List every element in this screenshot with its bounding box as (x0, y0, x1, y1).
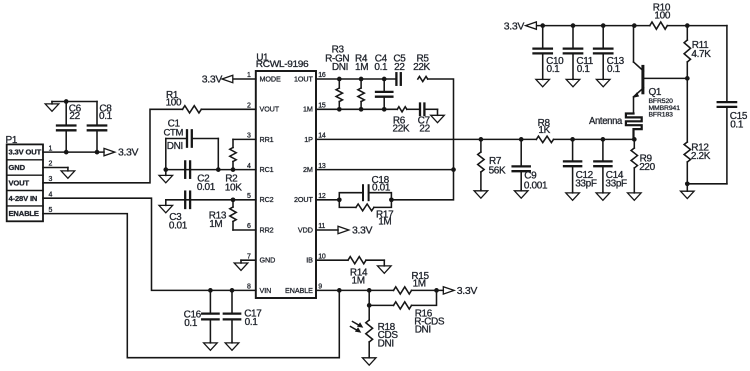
wire U1 2M (316, 169, 454, 171)
svg-text:1M: 1M (209, 219, 222, 230)
wire U1 IB (316, 259, 348, 261)
svg-text:4: 4 (49, 191, 53, 198)
ground at C12 (566, 193, 580, 201)
svg-text:100: 100 (654, 10, 670, 21)
svg-text:VIN: VIN (260, 286, 272, 295)
wire U1 1P main line (316, 138, 536, 140)
svg-text:100: 100 (166, 97, 182, 108)
svg-text:2: 2 (247, 103, 251, 110)
svg-text:56K: 56K (489, 166, 506, 177)
wire U1 GND (241, 259, 256, 261)
svg-text:8: 8 (247, 284, 251, 291)
svg-text:RC2: RC2 (260, 195, 274, 204)
wire U1 1OUT (316, 78, 396, 80)
svg-text:10: 10 (318, 253, 326, 260)
svg-text:1: 1 (49, 145, 53, 152)
capacitor C4 (374, 54, 392, 110)
node 1M-R4 (359, 107, 364, 112)
node R12-C15 (685, 181, 690, 186)
capacitor C14 (594, 139, 627, 192)
ground at P1 pin2 (61, 168, 75, 179)
node feedback-2M (451, 167, 456, 172)
svg-text:1M: 1M (352, 276, 365, 287)
node ENABLE bus (337, 288, 342, 293)
node VIN-C16 (208, 288, 213, 293)
svg-text:2M: 2M (303, 165, 313, 174)
power arrow 3.3V at ENABLE (443, 285, 477, 297)
svg-text:ENABLE: ENABLE (9, 209, 39, 218)
ground at C17 (225, 343, 239, 351)
wire U1 RR2 (233, 229, 256, 231)
svg-text:2: 2 (49, 161, 53, 168)
svg-text:12: 12 (318, 193, 326, 200)
wire U1 RC2 (190, 199, 256, 201)
resistor R2 (225, 139, 242, 193)
node ENABLE-R16/R18 (367, 288, 372, 293)
capacitor C16 (184, 290, 219, 342)
svg-text:3.3V: 3.3V (352, 225, 373, 237)
svg-text:22K: 22K (393, 123, 410, 134)
ground at C14 (596, 193, 610, 201)
svg-text:DNI: DNI (415, 325, 431, 336)
ground at C2 (159, 170, 173, 183)
node VIN-C17 (230, 288, 235, 293)
ground at C16 (204, 343, 218, 351)
node junction C8 (95, 150, 100, 155)
svg-text:0.01: 0.01 (197, 182, 216, 193)
svg-text:3.3V OUT: 3.3V OUT (9, 148, 42, 157)
svg-text:Q1: Q1 (649, 87, 662, 98)
svg-text:3: 3 (49, 176, 53, 183)
svg-text:0.1: 0.1 (99, 111, 113, 122)
node 1P-C12 (570, 137, 575, 142)
photoresistor R18 CDS DNI (351, 305, 399, 357)
ground at C6 rail (45, 102, 59, 112)
resistor R3 R-GN DNI (325, 45, 349, 110)
wire R5 to 2M feedback (391, 79, 453, 200)
node C1 right (216, 167, 221, 172)
node R13 top (231, 197, 236, 202)
wire U1 RR1 to R2 (233, 138, 256, 140)
svg-text:22: 22 (394, 62, 405, 73)
svg-text:220: 220 (639, 162, 655, 173)
resistor R12 (684, 78, 711, 183)
resistor R1 (166, 90, 202, 113)
resistor R17 (339, 200, 394, 228)
svg-text:RR1: RR1 (260, 135, 274, 144)
power arrow 3.3V at VDD (338, 225, 373, 237)
wire U1 RC1 (190, 169, 256, 171)
capacitor C13 (594, 26, 625, 87)
svg-text:1: 1 (247, 72, 251, 79)
wire R10 to C15 (667, 25, 727, 27)
node 1P-C14 (601, 137, 606, 142)
resistor R11 (684, 26, 711, 79)
svg-text:0.01: 0.01 (169, 221, 188, 232)
capacitor C3 (166, 192, 190, 232)
capacitor C12 (564, 139, 597, 192)
node rail-Q1 collector (632, 23, 637, 28)
capacitor C11 (564, 26, 594, 87)
svg-text:10K: 10K (225, 182, 242, 193)
svg-text:3.3V: 3.3V (504, 20, 525, 32)
svg-text:0.01: 0.01 (372, 183, 391, 194)
ground at R12 (681, 184, 695, 199)
node 1OUT-R4 (359, 77, 364, 82)
svg-text:MODE: MODE (260, 74, 281, 83)
node 1P-R7 (479, 137, 484, 142)
svg-text:5: 5 (49, 207, 53, 214)
node 1M-R3 (337, 107, 342, 112)
power arrow 3.3V rail (504, 20, 537, 32)
svg-text:GND: GND (260, 256, 276, 265)
resistor R15 (394, 271, 430, 294)
wire R8 to antenna (554, 138, 635, 140)
svg-text:4.7K: 4.7K (691, 49, 711, 60)
wire U1 2OUT (316, 199, 339, 201)
svg-text:RR2: RR2 (260, 225, 274, 234)
node rail-C11 (571, 23, 576, 28)
node 1M-C4 (382, 107, 387, 112)
ground at C3 (159, 200, 173, 213)
svg-text:0.1: 0.1 (547, 64, 561, 75)
svg-text:RC1: RC1 (260, 165, 274, 174)
svg-text:BFR183: BFR183 (649, 112, 674, 119)
svg-text:4-28V IN: 4-28V IN (9, 194, 38, 203)
svg-text:33pF: 33pF (575, 178, 597, 189)
svg-text:7: 7 (247, 253, 251, 260)
svg-text:1M: 1M (378, 217, 391, 228)
node R10-R11 (685, 23, 690, 28)
svg-text:14: 14 (318, 133, 326, 140)
svg-text:0.1: 0.1 (730, 119, 744, 130)
capacitor C9 (513, 139, 548, 191)
wire U1 MODE (234, 78, 256, 80)
svg-text:2OUT: 2OUT (294, 195, 313, 204)
svg-text:1M: 1M (355, 62, 368, 73)
svg-text:P1: P1 (6, 135, 18, 146)
svg-text:DNI: DNI (167, 141, 183, 152)
power arrow 3.3V at MODE (202, 73, 233, 85)
svg-text:Antenna: Antenna (589, 116, 623, 127)
node 1P-C9 (519, 137, 524, 142)
node rail-C10 (540, 23, 545, 28)
wire P1 pin5 ENABLE bus (43, 214, 339, 358)
capacitor C2 (166, 161, 216, 193)
power arrow 3.3V at P1 pin1 (104, 147, 139, 159)
svg-text:3: 3 (247, 133, 251, 140)
svg-text:13: 13 (318, 163, 326, 170)
ground at C9 (514, 190, 528, 198)
svg-text:33pF: 33pF (605, 178, 627, 189)
wire U1 ENABLE (316, 289, 394, 291)
svg-text:0.1: 0.1 (374, 62, 388, 73)
node R16 rejoin (434, 288, 439, 293)
wire R14 to ground (366, 259, 384, 261)
svg-text:1M: 1M (303, 105, 313, 114)
svg-text:1P: 1P (304, 135, 313, 144)
U1 pin numbers (247, 72, 326, 290)
node C1 left (163, 167, 168, 172)
ground at R14 (378, 260, 392, 273)
P1 pin numbers 1-5 (49, 145, 53, 214)
ground at R9 (628, 193, 642, 201)
resistor R8 (536, 118, 553, 143)
svg-text:VDD: VDD (298, 225, 313, 234)
node antenna-R9 (632, 137, 637, 142)
svg-text:1K: 1K (538, 125, 550, 136)
svg-text:15: 15 (318, 103, 326, 110)
wire C6 C8 top rail (52, 101, 97, 103)
svg-text:DNI: DNI (332, 62, 348, 73)
wire P1 pin3 VOUT to R1 (43, 109, 183, 183)
svg-text:IB: IB (306, 256, 313, 265)
capacitor C17 (224, 290, 262, 342)
capacitor C10 (534, 26, 565, 87)
wire P1 pin2 GND (43, 167, 68, 169)
svg-text:0.001: 0.001 (524, 181, 548, 192)
resistor R5 (413, 54, 430, 82)
svg-text:VOUT: VOUT (9, 178, 30, 187)
svg-text:9: 9 (318, 284, 322, 291)
node R11-base (685, 76, 690, 81)
node 2OUT left (337, 197, 342, 202)
svg-text:22K: 22K (413, 62, 430, 73)
svg-text:3.3V: 3.3V (118, 147, 139, 159)
resistor R4 (355, 54, 368, 110)
svg-text:0.1: 0.1 (184, 318, 198, 329)
resistor R14 (348, 257, 368, 287)
capacitor C15 (718, 26, 748, 184)
wire C15 to R12 (687, 183, 727, 185)
node rail-C13 (601, 23, 606, 28)
svg-text:3.3V: 3.3V (202, 73, 223, 85)
U1 pin names (260, 74, 314, 294)
antenna (589, 114, 642, 140)
resistor R7 (478, 139, 506, 190)
wire P1 pin1 3.3V OUT (43, 151, 104, 153)
ground at R7 (474, 190, 488, 198)
svg-text:22: 22 (419, 123, 430, 134)
resistor R10 (650, 3, 671, 30)
wire R15 to arrow (412, 289, 444, 291)
svg-text:2.2K: 2.2K (691, 151, 711, 162)
node R2 bottom (231, 167, 236, 172)
ground at C7 (431, 109, 445, 122)
capacitor C6 (57, 102, 82, 153)
capacitor C8 (88, 102, 113, 153)
wire U1 VDD (316, 229, 338, 231)
wire R1 to U1 VOUT (201, 108, 256, 110)
wire 3.3V rail (537, 25, 650, 27)
node junction C6 (64, 150, 69, 155)
op-amp IC U1 RCWL-9196 (256, 53, 316, 299)
svg-text:VOUT: VOUT (260, 105, 280, 114)
capacitor C7 (407, 104, 438, 135)
node R18 top (367, 303, 372, 308)
resistor R16 R-CDS DNI (369, 290, 445, 335)
wire P1 pin4 to U1 VIN (43, 198, 256, 290)
svg-text:4: 4 (247, 163, 251, 170)
ground at R18 (362, 357, 376, 365)
connector P1 (6, 135, 44, 221)
svg-text:1M: 1M (413, 278, 426, 289)
transistor Q1 (633, 26, 687, 119)
node 1OUT-R3 (337, 77, 342, 82)
resistor R9 (631, 139, 656, 192)
svg-text:RCWL-9196: RCWL-9196 (256, 59, 309, 69)
svg-text:11: 11 (318, 223, 325, 230)
svg-text:5: 5 (247, 193, 251, 200)
svg-text:CTM: CTM (164, 128, 184, 139)
svg-text:ENABLE: ENABLE (285, 286, 313, 295)
svg-text:0.1: 0.1 (577, 64, 591, 75)
ground at U1 GND (234, 260, 248, 270)
capacitor C18 (339, 175, 391, 200)
resistor R6 (393, 107, 410, 135)
svg-text:3.3V: 3.3V (457, 285, 478, 297)
svg-text:1OUT: 1OUT (294, 74, 313, 83)
svg-text:16: 16 (318, 72, 326, 79)
svg-text:0.1: 0.1 (245, 317, 259, 328)
svg-text:GND: GND (9, 163, 26, 172)
svg-text:22: 22 (69, 111, 80, 122)
capacitor C5 (393, 54, 406, 85)
node 2OUT right (389, 197, 394, 202)
node rail-C6 (64, 99, 69, 104)
wire U1 1M (316, 108, 397, 110)
svg-text:6: 6 (247, 223, 251, 230)
resistor R13 (209, 200, 236, 230)
svg-text:DNI: DNI (378, 338, 394, 349)
capacitor C1 CTM DNI (164, 119, 219, 170)
node 1OUT-C4 (382, 77, 387, 82)
svg-text:0.1: 0.1 (607, 64, 621, 75)
